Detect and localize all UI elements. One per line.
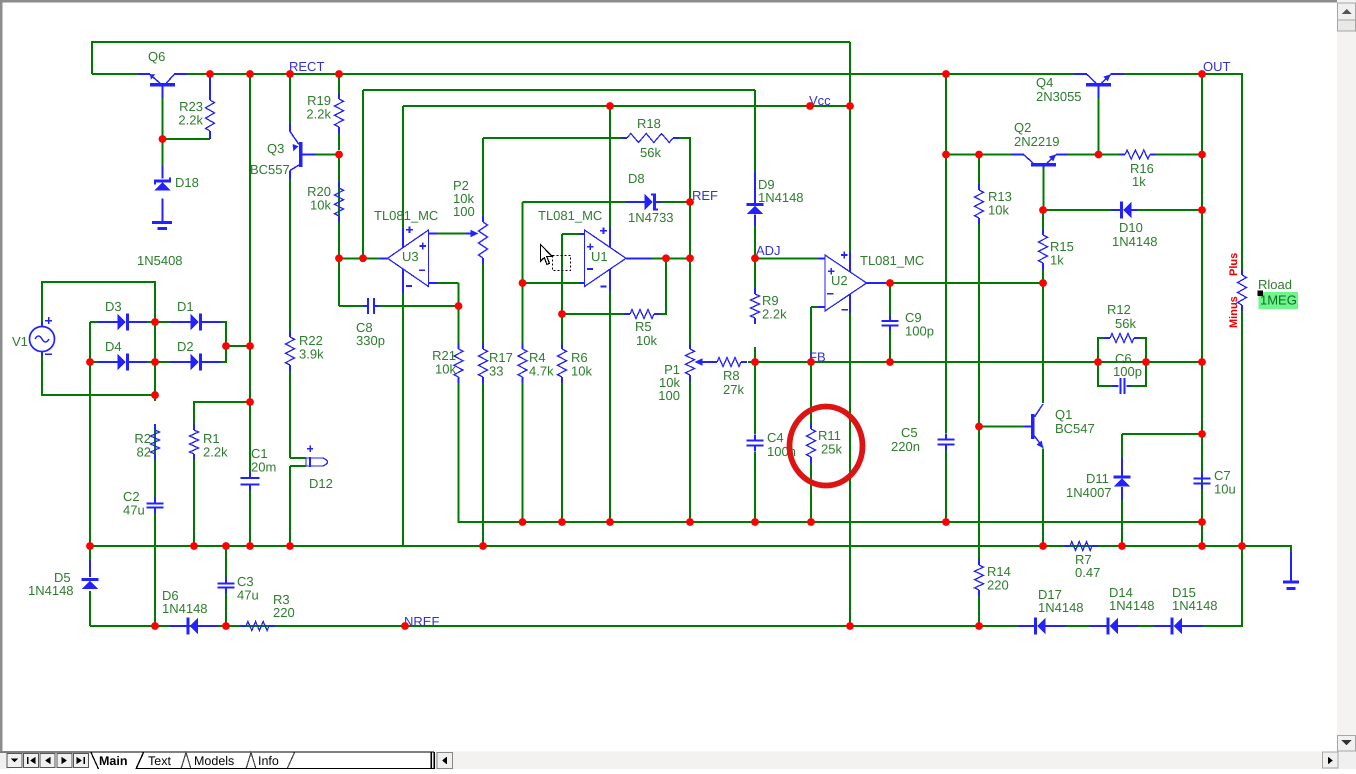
wire R9 bottom [754,347,756,362]
wire rail y90 [363,89,755,91]
svg-text:1N4007: 1N4007 [1066,485,1112,500]
label D15 value [1172,598,1218,613]
svg-text:1MEG: 1MEG [1260,293,1297,308]
wire node139 link [163,138,211,140]
wire C8 right [379,305,459,307]
net label REF [692,188,718,203]
junction gnd x1043 [1039,542,1047,550]
wire Q3 emitter lead [289,124,291,132]
wire D11 top link [1122,433,1202,435]
diode D1 [170,299,221,330]
junction RECT [286,70,294,78]
junction rail522 x811 [807,518,815,526]
junction row2 x155 [151,358,159,366]
svg-text:3.9k: 3.9k [299,347,324,362]
resistor R19 [306,93,343,133]
wire bridge row1 left [90,321,98,323]
junction y74 x250 [246,70,254,78]
junction R5 x562 [558,310,566,318]
svg-text:BC547: BC547 [1055,421,1095,436]
junction x850 rail106 [846,102,854,110]
wire R6 bottom [561,383,563,522]
wire y154 left [946,154,1016,156]
wire x755 R9 top [754,258,756,288]
transistor Q4 [1036,74,1124,104]
op-amp U1 [538,208,652,291]
junction U1 -in x523 [519,279,527,287]
resistor R12 [1104,302,1140,343]
resistor R9 [751,288,788,324]
op-amp U3 [374,208,438,293]
capacitor C6 [1112,351,1142,394]
junction rail522 x610 [606,518,614,526]
wire R15 top [1042,210,1044,229]
svg-text:R5: R5 [635,319,652,334]
junction row2 x90 [86,358,94,366]
wire ADJ to U2 +in [755,257,818,259]
diode D4 [98,339,147,370]
resistor R8 [711,358,747,398]
wire rail y74 left [92,73,140,75]
label Rload [1258,277,1292,292]
junction x162 y139 [159,135,167,143]
diode D2 [170,339,221,370]
wire C1 bottom [249,490,251,546]
svg-text:2.2k: 2.2k [762,307,787,322]
svg-text:Q2: Q2 [1014,120,1031,135]
resistor R14 [975,559,1011,596]
capacitor C4 [747,430,796,459]
label 1N5408 [137,253,183,268]
wire U2 -in [811,306,818,308]
label D6 value [162,601,208,616]
wire x523 down to U1 -in [522,202,524,283]
junction rail522 x755 [751,518,759,526]
wire U1 out [652,257,690,259]
wire rail y74 middle [186,73,1075,75]
wire U2 out [886,282,1043,284]
junction y154 x946 [942,151,950,159]
svg-text:10k: 10k [988,203,1009,218]
wire x290 to Q3 [289,74,291,124]
junction FB U2-in [807,358,815,366]
wire D18 top [162,139,164,166]
svg-text:Q6: Q6 [148,49,165,64]
resistor R5 [624,310,660,349]
wire R19 bottom link [338,133,340,150]
wire R13 top [978,155,980,185]
wire R8 to FB node [748,361,755,363]
junction x250 y346 [246,342,254,350]
wire C5 bottom [945,450,947,522]
wire x610 U1 VS- down [609,291,611,522]
svg-text:56k: 56k [1115,316,1136,331]
wire x155 R2 to C2 [154,425,156,498]
wire R12 right stub [1140,338,1146,362]
svg-text:TL081_MC: TL081_MC [374,208,438,223]
junction gnd x194 [190,542,198,550]
junction U3out x339 [335,254,343,262]
resistor R6 [558,343,593,383]
junction x1202 rail546 [1198,542,1206,550]
junction y74 x339 [335,70,343,78]
svg-text:1N4148: 1N4148 [1112,234,1158,249]
wire bridge row2 mid [147,361,170,363]
wire D11 bottom lead blue [1121,487,1123,505]
net label ADJ [756,243,781,258]
wire U3 -in link [437,282,459,284]
svg-text:2N2219: 2N2219 [1014,134,1060,149]
wire D5 bottom [89,591,91,626]
junction FB OUTx [1198,358,1206,366]
svg-text:R18: R18 [637,116,661,131]
wire D5 top lead [89,560,91,577]
wire NREF right [1192,546,1242,626]
label D5 value [28,583,74,598]
resistor R15 [1039,229,1074,269]
wire x690 REF to P1 [689,202,691,343]
wire R23 top lead [209,74,211,94]
wire D8 to REF [661,201,690,203]
svg-text:D12: D12 [309,476,333,491]
svg-text:D2: D2 [177,339,194,354]
resistor R1 [190,424,229,460]
wire P1 wiper to R8 [704,361,711,363]
junction x610 rail106 [606,102,614,110]
resistor Rload [1238,269,1247,311]
wire R4 bottom [522,383,524,522]
label D10 value [1112,234,1158,249]
ground below D18 [152,223,172,229]
resistor R18 [621,116,679,160]
svg-text:Rload: Rload [1258,277,1292,292]
svg-text:D8: D8 [628,171,645,186]
wire D11 bottom [1121,500,1123,546]
wire D18 top lead [162,166,164,179]
wire Q3 collector down [289,179,291,331]
wire x90 bridge to NREF [89,322,91,572]
wire U1 -in [523,282,580,284]
wire rail y202 [523,201,628,203]
diode D8 zener [626,171,661,210]
svg-text:47u: 47u [123,503,145,518]
label D8 value [628,210,674,225]
label D17 value [1038,600,1084,615]
junction Q3 base R19 R20 [335,151,343,159]
wire C4 bottom [754,452,756,522]
svg-text:10k: 10k [571,364,592,379]
junction x250 y402 [246,398,254,406]
wire D9 top lead [754,172,756,203]
wire rail y522 [459,383,1203,522]
diode D18 zener [154,175,199,191]
wire y210 right [1137,209,1202,211]
capacitor C2 [123,489,164,518]
junction gnd x1122 [1118,542,1126,550]
resistor R13 [975,184,1012,224]
junction NREF x226 [222,622,230,630]
mouse cursor with selection box [541,245,571,271]
net label OUT [1203,59,1231,74]
wire y402 to R1 [194,402,250,425]
wire C3 top [225,546,227,578]
svg-text:Info: Info [258,754,279,768]
wire D9 bottom lead [754,214,756,226]
resistor R17 [479,343,513,383]
resistor R23 [178,94,214,137]
diode D12 [306,446,333,492]
diode D15 [1154,585,1203,634]
svg-text:1N4148: 1N4148 [1172,598,1218,613]
wire Q4 base down [1098,98,1100,155]
wire D12 bottom [289,466,291,546]
label D14 value [1109,598,1155,613]
svg-text:27k: 27k [723,382,744,397]
wire P2 to R17 [482,258,484,343]
wire x250 long [249,74,251,472]
svg-text:1N4148: 1N4148 [162,601,208,616]
wire Q3 base [316,154,339,156]
junction FB C9 [886,358,894,366]
junction y210 x1043 [1039,206,1047,214]
junction rail522 x522 [519,518,527,526]
net label Vcc [809,93,831,108]
resistor R22 [286,331,325,371]
svg-text:D4: D4 [105,339,122,354]
capacitor C5 [891,425,955,454]
vertical scrollbar [1337,0,1356,751]
diode D3 [98,299,147,330]
wire V1 top loop [42,282,155,327]
wire C9 top [889,283,891,315]
wire R14 bottom [978,596,980,626]
svg-text:D10: D10 [1119,220,1143,235]
junction FB R12 left [1094,358,1102,366]
wire x483 P2 top [482,138,484,216]
junction REF [686,198,694,206]
label Plus [1228,253,1240,276]
svg-text:1N4148: 1N4148 [758,190,804,205]
svg-text:D1: D1 [177,299,194,314]
svg-text:100: 100 [658,388,680,403]
wire C4 top [754,362,756,434]
resistor R7 [1064,542,1100,581]
wire bridge row1 right [221,322,250,346]
svg-text:1N4148: 1N4148 [1109,598,1155,613]
wire main ground rail [90,546,1291,581]
junction rail522 x562 [558,518,566,526]
wire D12 stubs [290,458,306,466]
wire y210 left [1043,209,1111,211]
label R11 value [821,442,842,457]
potentiometer P1 [658,343,711,403]
diode D14 [1090,585,1139,634]
svg-text:C5: C5 [901,425,918,440]
potentiometer P2 [453,178,488,264]
wire x1202 OUT down [1201,74,1203,546]
junction U1out x690 REF [686,254,694,262]
svg-text:20m: 20m [251,460,276,475]
resistor R16 [1119,150,1156,189]
svg-text:D18: D18 [175,175,199,190]
svg-text:1N4733: 1N4733 [628,210,674,225]
transistor Q6 [138,49,187,98]
junction rail522 x947 [942,518,950,526]
capacitor C3 [218,574,259,603]
wire R15 bottom [1042,269,1044,283]
resistor R2 [134,424,159,460]
wire x979 long [978,224,980,559]
svg-text:1k: 1k [1050,253,1064,268]
wire C8 left [339,305,363,307]
wire x946 long [945,74,947,433]
resistor R3 [240,592,295,631]
net label FB [809,350,826,365]
svg-text:220: 220 [987,578,1009,593]
svg-text:33: 33 [489,364,503,379]
junction U3out x363 [359,254,367,262]
svg-text:100p: 100p [1113,364,1142,379]
junction row1 x155 [151,318,159,326]
wire bridge row2 left [90,361,98,363]
wire D9 to ADJ [754,226,756,258]
svg-text:0.47: 0.47 [1075,565,1100,580]
junction y74 x946 [942,70,950,78]
diode D11 [1086,471,1130,487]
wire bridge row1 mid [147,321,170,323]
wire C6 left stub [1098,362,1112,386]
wire C2 bottom [154,513,156,626]
svg-text:100p: 100p [905,324,934,339]
junction gnd x226 [222,542,230,550]
net label RECT [289,59,324,74]
svg-text:ADJ: ADJ [756,243,781,258]
svg-text:10k: 10k [435,362,456,377]
wire R23 bottom lead [209,137,211,139]
junction gnd x291 [286,542,294,550]
wire x458 C8 to R21 [458,283,460,343]
wire C9 bottom [889,331,891,362]
junction Q4 base [1095,151,1103,159]
wire x562 down to R5/R6 [561,234,563,343]
wire x610 U1 VS+ [609,106,611,228]
junction C8 R21 U3-in [455,302,463,310]
junction NREF x154 [151,622,159,630]
resistor R4 [518,343,554,383]
wire NREF rail left [90,625,1025,627]
svg-text:220: 220 [273,605,295,620]
bottom tab bar and horizontal scrollbar [0,752,1356,770]
transistor Q2 [1011,120,1068,168]
svg-text:R12: R12 [1107,302,1131,317]
diode D5 [54,570,98,589]
svg-text:1N5408: 1N5408 [137,253,183,268]
wire bridge row2 right [221,346,226,362]
junction U2 out [886,279,894,287]
wire rail y106 [403,105,850,107]
wire U3 out [339,257,381,259]
wire top rail [92,42,850,74]
wire R1 bottom [193,459,195,546]
svg-text:1N4148: 1N4148 [1038,600,1084,615]
svg-text:10u: 10u [1214,482,1236,497]
wire R5 right link [660,258,666,314]
wire x522 to R4 [522,283,524,343]
svg-text:Text: Text [148,754,171,768]
svg-text:D11: D11 [1086,471,1109,486]
svg-text:C4: C4 [767,430,784,445]
svg-text:TL081_MC: TL081_MC [538,208,602,223]
junction U1out x666 [662,254,670,262]
wire R17 bottom [482,383,484,546]
wire P1 bottom [689,381,691,522]
junction FB R8 [751,358,759,366]
svg-text:1N4148: 1N4148 [28,583,74,598]
wire R16 right [1156,154,1202,156]
junction OUT [1198,70,1206,78]
svg-text:Q3: Q3 [267,141,284,156]
svg-text:2.2k: 2.2k [203,445,228,460]
svg-text:220n: 220n [891,439,920,454]
junction y154 OUT [1198,151,1206,159]
junction gnd x483 [479,542,487,550]
diode D6 [162,588,218,634]
wire D18 bottom lead [162,199,164,222]
wire Q6 base down [162,98,164,139]
junction ADJ [751,254,759,262]
wire D11 top lead [1121,434,1123,458]
junction x1202 D11 [1198,430,1206,438]
svg-text:REF: REF [692,188,718,203]
svg-text:2N3055: 2N3055 [1036,89,1082,104]
svg-text:1k: 1k [1132,174,1146,189]
wire x811 U2-in to FB [810,307,812,362]
junction x1202 C7 rail522 [1198,518,1206,526]
wire V1 bottom loop [42,351,155,395]
resistor R11 [807,423,841,463]
svg-text:25k: 25k [821,442,842,457]
junction Q1 base [975,423,983,431]
svg-text:Minus: Minus [1228,296,1240,328]
junction y210 x1202 [1198,206,1206,214]
svg-text:Models: Models [194,754,234,768]
wire x811 R11 top [810,362,812,423]
wire y154 right [1068,154,1119,156]
source V1 [12,317,55,356]
wire U1 +in [562,233,579,235]
wire rail y74 right [1123,74,1242,269]
svg-text:R8: R8 [723,368,740,383]
wire R19 top lead [338,74,340,93]
wire R12 left stub [1098,338,1104,362]
resistor R20 [307,182,343,222]
wire x403 U3 VS- down [402,293,404,546]
svg-text:Main: Main [99,754,127,768]
label Minus [1228,296,1240,328]
svg-text:330p: 330p [356,333,385,348]
junction y154 x979 [975,151,983,159]
wire R18 right to REF [679,138,690,202]
wire Q1 base [979,426,1024,428]
diode D17 [1018,587,1066,634]
svg-text:U2: U2 [831,273,848,288]
junction Vcc [806,102,814,110]
wire x850 U2 VS- down [849,313,851,626]
wire x155 bridge verticals [154,322,156,401]
selection highlight 1MEG [1258,291,1299,310]
junction NREF x979 [975,622,983,630]
svg-text:U1: U1 [591,249,608,264]
